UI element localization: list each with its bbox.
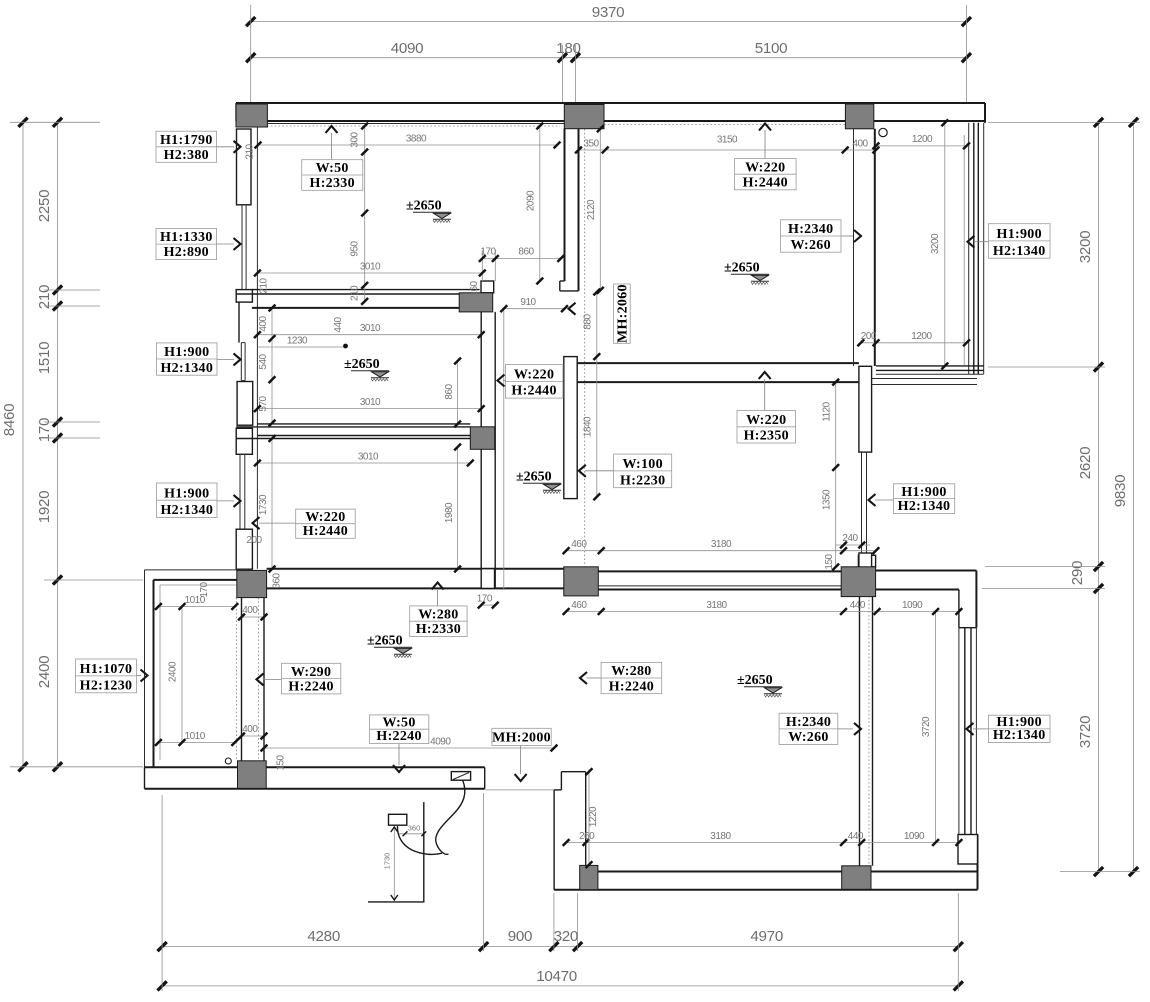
svg-text:460: 460 <box>571 539 587 550</box>
svg-text:H2:1340: H2:1340 <box>993 244 1046 259</box>
svg-text:H1:900: H1:900 <box>164 486 209 501</box>
svg-text:H2:1230: H2:1230 <box>80 678 133 693</box>
porch dim 360 <box>398 824 426 837</box>
label W:220/H:2440 top-right <box>735 159 797 191</box>
svg-text:160: 160 <box>469 280 480 296</box>
dim room1 top 3880 <box>255 134 561 149</box>
balcony bottom-left walls <box>145 570 237 767</box>
leader H:2340 bottom arrow <box>838 723 861 735</box>
wall top exterior <box>236 103 985 126</box>
svg-text:1980: 1980 <box>444 502 455 523</box>
wall left pier A <box>237 129 252 205</box>
svg-text:4970: 4970 <box>750 928 783 945</box>
svg-text:200: 200 <box>861 331 877 342</box>
room6 left wall <box>554 772 586 890</box>
label W:220/H:2440 hall <box>505 365 563 399</box>
svg-text:540: 540 <box>258 353 269 369</box>
svg-text:H1:1330: H1:1330 <box>160 230 213 245</box>
label H1:1070/H2:1230 <box>75 659 136 693</box>
svg-text:860: 860 <box>444 383 455 399</box>
wall central band notch at hall wall <box>481 569 494 589</box>
svg-text:3150: 3150 <box>717 135 738 146</box>
svg-text:1730: 1730 <box>383 853 392 870</box>
balcony top-right bottom rails <box>872 366 984 385</box>
wall left pier E <box>236 529 252 569</box>
label H1:900/H2:1340 left-1 <box>157 343 218 376</box>
leader W:100 arrow <box>579 465 614 477</box>
svg-text:210: 210 <box>259 277 270 293</box>
svg-text:860: 860 <box>518 247 534 258</box>
leader W:220 hall arrow <box>498 375 506 387</box>
leader H1:1790 arrow <box>217 141 241 153</box>
svg-text:360: 360 <box>408 824 421 833</box>
dim right extension lines <box>982 122 1140 871</box>
dim 240 near column C8 <box>835 533 870 548</box>
wall left interior face line <box>256 126 258 569</box>
dim top overall 9370 <box>246 4 971 26</box>
dim room2 right 860 <box>444 358 461 428</box>
svg-text:W:220: W:220 <box>745 160 785 175</box>
circle bottom-left <box>225 758 231 764</box>
level mark room4 <box>367 634 412 658</box>
svg-text:3200: 3200 <box>1077 231 1094 264</box>
svg-text:950: 950 <box>350 240 361 256</box>
svg-text:4090: 4090 <box>391 40 424 57</box>
svg-text:2400: 2400 <box>36 656 53 689</box>
dim room6 bottom chain 260/3180/440/1090 <box>563 831 963 846</box>
svg-text:3880: 3880 <box>406 134 427 145</box>
svg-text:1230: 1230 <box>287 336 308 347</box>
grid dashed line central <box>584 129 586 566</box>
leader W:280 room6 arrow <box>580 672 601 684</box>
circle top-right <box>879 128 887 136</box>
dim left overall 8460 <box>1 118 28 772</box>
svg-text:150: 150 <box>276 754 287 770</box>
svg-text:W:220: W:220 <box>305 510 345 525</box>
wall between top-right and middle-right rooms <box>577 363 859 382</box>
dim 170 top of room5 <box>477 594 499 609</box>
dim balcony top 1200 <box>873 134 970 149</box>
svg-text:H:2340: H:2340 <box>788 222 833 237</box>
svg-text:2090: 2090 <box>526 190 537 211</box>
level mark room2 <box>344 357 389 381</box>
label W:50/H:2330 room1 <box>302 160 363 191</box>
dim room3 right 1980 <box>444 444 461 573</box>
svg-text:W:280: W:280 <box>611 664 651 679</box>
column C4 hall-west top <box>459 293 493 312</box>
svg-text:4280: 4280 <box>307 928 340 945</box>
dim room2 1230/440 <box>257 316 348 348</box>
svg-text:300: 300 <box>350 131 361 147</box>
svg-text:1220: 1220 <box>588 806 599 827</box>
leader W:290 arrow <box>257 673 282 685</box>
column C10 bottom-center <box>580 865 598 889</box>
wall between rooms 1 and 2 <box>236 290 481 308</box>
grid dashed bottom-right <box>868 596 870 866</box>
bottom-left exterior wall band <box>145 767 555 790</box>
leader W:220 H:2350 arrow <box>759 372 771 411</box>
label H1:900/H2:1340 right-top <box>988 224 1050 259</box>
label H1:900/H2:1340 bottom-right <box>988 715 1050 743</box>
svg-text:1200: 1200 <box>911 331 932 342</box>
dim hall 880/1840 <box>583 289 601 501</box>
dim right chain 3200/2620/290/3720 <box>1069 118 1103 876</box>
wall right pier below window <box>859 553 872 568</box>
leader W:50 bottom arrow <box>393 744 405 772</box>
leader H1:900 left-1 arrow <box>217 353 241 365</box>
svg-text:H:2230: H:2230 <box>620 473 665 488</box>
label W:290/H:2240 <box>282 663 341 694</box>
svg-text:9370: 9370 <box>592 4 625 21</box>
svg-text:3180: 3180 <box>711 539 732 550</box>
dim hall 910 <box>500 297 568 590</box>
svg-text:H:2440: H:2440 <box>743 175 788 190</box>
svg-text:H:2330: H:2330 <box>416 622 461 637</box>
label H1:900/H2:1340 right-mid <box>893 484 954 514</box>
level mark room1 <box>406 199 451 223</box>
label H1:1330/H2:890 <box>156 229 217 261</box>
svg-text:H2:1340: H2:1340 <box>993 728 1046 743</box>
svg-text:3010: 3010 <box>360 262 381 273</box>
dim top-right room chain 350/3150/400 <box>575 135 879 154</box>
svg-text:±2650: ±2650 <box>516 470 552 485</box>
svg-text:MH:2000: MH:2000 <box>492 731 551 746</box>
svg-text:H:2330: H:2330 <box>310 176 355 191</box>
dim top-right room left 2120 <box>586 125 604 293</box>
arrow at 910 door <box>569 303 576 315</box>
svg-text:4090: 4090 <box>430 737 451 748</box>
leader H1:900 bottom-right arrow <box>967 723 989 735</box>
porch cable curve 2 <box>397 826 442 854</box>
svg-text:2400: 2400 <box>168 661 179 682</box>
column C2 top-center <box>564 105 604 129</box>
svg-text:400: 400 <box>258 315 269 331</box>
wall right of column C8 with jog <box>876 571 977 628</box>
svg-text:H:2440: H:2440 <box>511 384 556 399</box>
level mark top-right room <box>724 261 769 285</box>
svg-text:H1:900: H1:900 <box>901 485 946 500</box>
wall W100 central rect <box>564 357 577 499</box>
wall left pier B <box>236 290 252 303</box>
svg-text:H1:1790: H1:1790 <box>160 133 213 148</box>
svg-text:H2:1340: H2:1340 <box>898 499 951 514</box>
porch dim 1730 <box>383 827 398 900</box>
svg-text:W:290: W:290 <box>291 665 331 680</box>
svg-text:440: 440 <box>848 831 864 842</box>
svg-text:350: 350 <box>583 139 599 150</box>
svg-text:170: 170 <box>477 594 493 605</box>
dim room4 4090 <box>261 737 558 752</box>
dim room6 1220 <box>586 768 599 868</box>
label W:280/H:2240 room6 <box>601 662 662 694</box>
leader H1:900 balcony arrow <box>968 236 989 248</box>
svg-text:150: 150 <box>824 553 835 569</box>
svg-text:1090: 1090 <box>904 831 925 842</box>
svg-text:3720: 3720 <box>921 716 932 737</box>
svg-text:2620: 2620 <box>1077 447 1094 480</box>
svg-text:W:220: W:220 <box>514 368 554 383</box>
column C11 bottom-right <box>842 866 871 890</box>
svg-text:320: 320 <box>554 928 578 945</box>
svg-text:W:220: W:220 <box>746 413 786 428</box>
pier bottom-right <box>958 835 978 865</box>
svg-text:H2:1340: H2:1340 <box>160 361 213 376</box>
svg-text:3010: 3010 <box>360 323 381 334</box>
svg-text:260: 260 <box>579 831 595 842</box>
svg-text:W:280: W:280 <box>418 607 458 622</box>
svg-text:440: 440 <box>850 600 866 611</box>
porch wall line horizontal <box>368 901 425 903</box>
svg-text:H2:890: H2:890 <box>164 245 209 260</box>
dim room6 top chain 460/3180/440/1090 <box>563 600 963 615</box>
label H:2340/W:260 top <box>780 220 841 253</box>
svg-text:W:260: W:260 <box>788 730 828 745</box>
svg-text:W:50: W:50 <box>316 161 349 176</box>
dim room2 top 3010 <box>254 323 485 338</box>
wall left pier C <box>237 382 253 426</box>
wall right pier middle <box>859 366 872 452</box>
svg-text:910: 910 <box>520 297 536 308</box>
svg-text:±2650: ±2650 <box>737 673 773 688</box>
svg-text:3010: 3010 <box>358 452 379 463</box>
pier above column C8 <box>858 555 875 567</box>
dim bottom extension lines <box>162 793 958 991</box>
label H1:1790/H2:380 <box>156 131 217 163</box>
svg-text:170: 170 <box>480 247 496 258</box>
svg-text:3200: 3200 <box>930 233 941 254</box>
svg-text:±2650: ±2650 <box>367 634 403 649</box>
svg-text:H:2340: H:2340 <box>786 715 831 730</box>
wall hall-west x485 <box>481 312 495 589</box>
svg-text:170: 170 <box>199 581 210 597</box>
svg-text:H:2440: H:2440 <box>303 524 348 539</box>
svg-text:3180: 3180 <box>706 600 727 611</box>
room4 left wall window W290 <box>236 598 264 761</box>
porch cable curve 1 <box>436 781 465 855</box>
svg-text:200: 200 <box>246 535 262 546</box>
svg-text:290: 290 <box>1069 561 1086 585</box>
dim room3 left 1730 <box>258 435 275 572</box>
dim balcony bottom-left 1010 bottom <box>155 731 238 746</box>
dim room2 left chain 400/540/570 <box>258 305 276 427</box>
column C1 top-left <box>236 104 267 127</box>
wall central band left part <box>267 569 564 589</box>
column C7 center <box>564 567 599 596</box>
dim room2 bottom 3010 <box>254 397 485 412</box>
dim balcony bottom-left 2400 <box>168 603 186 746</box>
svg-text:210: 210 <box>350 285 361 301</box>
svg-text:900: 900 <box>508 928 532 945</box>
grid dashed bottom-center <box>585 772 587 888</box>
column C5 hall-west mid <box>470 427 494 450</box>
svg-text:880: 880 <box>583 313 594 329</box>
label W:220/H:2350 <box>737 411 796 444</box>
svg-text:1350: 1350 <box>822 489 833 510</box>
svg-text:210: 210 <box>245 143 256 159</box>
svg-text:H:2240: H:2240 <box>609 679 654 694</box>
svg-text:1200: 1200 <box>912 134 933 145</box>
leader W:220 room3 arrow <box>253 517 296 529</box>
room6 bottom wall <box>554 872 977 890</box>
label W:100/H:2230 <box>614 454 672 488</box>
svg-text:W:100: W:100 <box>623 457 663 472</box>
wall between rooms 2 and 3 <box>236 424 470 439</box>
wall left pier D <box>236 428 252 454</box>
dim balcony bottom 200/1200 <box>857 331 970 346</box>
svg-text:2120: 2120 <box>586 199 597 220</box>
balcony top-right window right <box>969 123 984 374</box>
label W:280/H:2330 <box>410 606 467 637</box>
window left W3 <box>240 454 245 529</box>
dim room1 170/860 <box>479 247 564 282</box>
svg-text:10470: 10470 <box>536 968 577 985</box>
svg-text:9830: 9830 <box>1112 475 1129 508</box>
svg-text:W:260: W:260 <box>791 238 831 253</box>
balcony bottom-right window <box>959 628 971 835</box>
dim room6 right 3720 <box>921 608 939 846</box>
svg-text:1090: 1090 <box>902 600 923 611</box>
label W:220/H:2440 room3 <box>296 509 356 539</box>
svg-text:1510: 1510 <box>36 342 53 375</box>
svg-text:±2650: ±2650 <box>344 357 380 372</box>
dim 400 upper room4 wall <box>238 605 267 620</box>
dim room1 left chain 300/800/950/210 <box>350 123 369 305</box>
svg-text:H1:900: H1:900 <box>164 345 209 360</box>
room6 right wall <box>860 597 873 866</box>
svg-text:H2:380: H2:380 <box>164 148 209 163</box>
svg-text:180: 180 <box>556 40 580 57</box>
svg-text:400: 400 <box>242 605 258 616</box>
svg-text:1840: 1840 <box>583 416 594 437</box>
dim room3 top 3010 <box>254 452 474 467</box>
svg-text:440: 440 <box>333 316 344 332</box>
wall left segment below pier B <box>238 302 240 343</box>
dim room1 right 2090 <box>526 123 544 285</box>
svg-text:170: 170 <box>36 418 53 442</box>
svg-text:±2650: ±2650 <box>724 261 760 276</box>
svg-text:±2650: ±2650 <box>406 199 442 214</box>
dim left chain 2250/210/1510/170/1920/2400 <box>36 118 62 772</box>
leader W:280 H:2330 arrow <box>432 583 444 606</box>
window right middle H1:900 <box>862 452 867 553</box>
svg-text:1120: 1120 <box>822 401 833 421</box>
label H1:900/H2:1340 left-2 <box>157 483 218 518</box>
balcony top-right left wall <box>854 129 875 366</box>
dim room1 bottom 3010 <box>254 262 486 277</box>
column C9 left-bottom <box>238 761 267 789</box>
leader H1:900 right-mid arrow <box>869 494 894 506</box>
svg-text:400: 400 <box>242 724 258 735</box>
column C8 right-center <box>841 567 875 597</box>
leader MH:2000 arrow <box>515 746 527 782</box>
svg-text:360: 360 <box>272 572 283 588</box>
dim bottom chain 4280/900/320/4970 <box>158 928 963 951</box>
dim top extension lines <box>251 5 967 104</box>
leader H:2340 top arrow <box>841 230 861 242</box>
svg-text:MH:2060: MH:2060 <box>615 284 630 343</box>
svg-text:240: 240 <box>842 533 858 544</box>
svg-text:3180: 3180 <box>710 831 731 842</box>
dim left extension lines <box>10 122 143 767</box>
leader H1:1330 arrow <box>217 238 241 250</box>
dim top row 4090/180/5100 <box>246 40 971 62</box>
dim bottom overall 10470 <box>158 968 963 991</box>
svg-text:1010: 1010 <box>185 731 206 742</box>
label MH:2060 <box>614 284 631 343</box>
door threshold notch <box>451 772 470 781</box>
svg-text:3720: 3720 <box>1077 716 1094 749</box>
svg-text:1730: 1730 <box>258 494 269 515</box>
leader W:220 top-right arrow <box>759 124 771 159</box>
window left W1 <box>242 205 246 290</box>
leader W:50 room1 arrow <box>326 126 338 160</box>
svg-text:H1:1070: H1:1070 <box>80 662 133 677</box>
svg-text:1920: 1920 <box>36 491 53 524</box>
right wall outer lower <box>976 628 977 890</box>
dim right overall 9830 <box>1112 118 1138 876</box>
svg-text:2250: 2250 <box>36 190 53 223</box>
dim balcony bottom-left 1010 top <box>155 595 238 610</box>
dim 400 lower room4 wall <box>238 724 267 739</box>
level mark room6 <box>737 673 782 697</box>
column C6 left-center <box>237 570 267 597</box>
label W:50/H:2240 bottom <box>370 715 429 744</box>
svg-text:210: 210 <box>36 285 53 309</box>
balcony top-right inner sill line <box>963 135 965 365</box>
label H:2340/W:260 bottom <box>779 713 838 745</box>
dim balcony 3200 <box>930 119 948 369</box>
column C3 top-right <box>845 104 873 129</box>
window left W2 <box>241 343 245 381</box>
dim hall bottom 460/3180/240 <box>563 539 880 554</box>
svg-text:460: 460 <box>571 600 587 611</box>
leader H1:1070 arrow <box>137 670 148 682</box>
wall central band right part <box>598 571 841 589</box>
svg-text:H1:900: H1:900 <box>997 227 1042 242</box>
svg-text:5100: 5100 <box>755 40 788 57</box>
level mark hall <box>516 470 561 494</box>
svg-text:570: 570 <box>258 395 269 411</box>
porch bell box <box>389 814 407 825</box>
dim middle-right 1120/1350 <box>822 379 840 571</box>
svg-text:H:2350: H:2350 <box>744 429 789 444</box>
leader H1:900 left-2 arrow <box>217 495 241 507</box>
wall central vertical 180 <box>560 129 579 291</box>
svg-text:H2:1340: H2:1340 <box>160 503 213 518</box>
porch wall line vertical <box>423 802 425 902</box>
svg-text:400: 400 <box>852 139 868 150</box>
label MH:2000 <box>492 728 551 745</box>
svg-text:3010: 3010 <box>360 397 381 408</box>
wall stub above column at hall wall <box>481 281 494 293</box>
svg-text:H:2240: H:2240 <box>376 729 421 744</box>
svg-text:8460: 8460 <box>1 404 18 437</box>
svg-text:H:2240: H:2240 <box>288 680 333 695</box>
